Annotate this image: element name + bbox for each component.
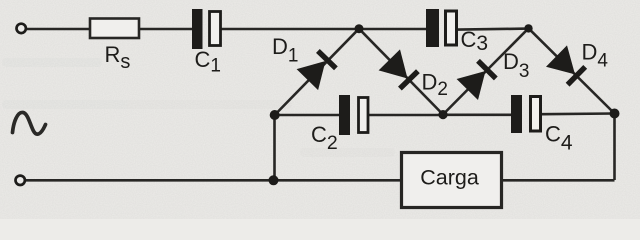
svg-text:C3: C3 [461, 27, 489, 55]
svg-text:Carga: Carga [420, 166, 479, 190]
